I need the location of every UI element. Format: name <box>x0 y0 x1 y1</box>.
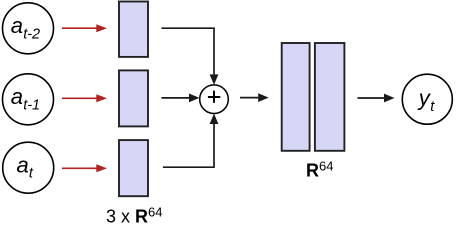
wire rect2 to plus (straight) <box>162 94 200 103</box>
node a_t-1 (input circle) <box>3 74 54 125</box>
embedding rect 1 <box>119 2 148 57</box>
svg-text:a: a <box>17 152 29 177</box>
embedding rect 3 <box>119 140 148 196</box>
hidden layer rect B <box>315 43 345 151</box>
wire rect3 to plus (bottom elbow) <box>163 114 219 168</box>
wire plus to hidden layer <box>240 93 269 102</box>
summation node (+) <box>200 85 229 114</box>
svg-text:t-2: t-2 <box>23 26 40 42</box>
embedding rect 2 <box>119 70 148 126</box>
hidden layer rect A <box>282 43 310 151</box>
red arrow 2 (a_t-1 to embedding) <box>62 94 107 102</box>
red arrow 3 (a_t to embedding) <box>62 164 107 172</box>
node a_t-2 (input circle) <box>3 3 54 54</box>
svg-text:t-1: t-1 <box>23 97 40 113</box>
wire hidden layer to y_t <box>358 94 395 103</box>
svg-text:a: a <box>11 13 23 38</box>
node a_t (input circle) <box>3 142 54 193</box>
red arrow 1 (a_t-2 to embedding) <box>62 24 107 32</box>
wire rect1 to plus (top elbow) <box>162 28 219 85</box>
svg-text:a: a <box>11 84 23 109</box>
node y_t (output circle) <box>402 74 452 124</box>
